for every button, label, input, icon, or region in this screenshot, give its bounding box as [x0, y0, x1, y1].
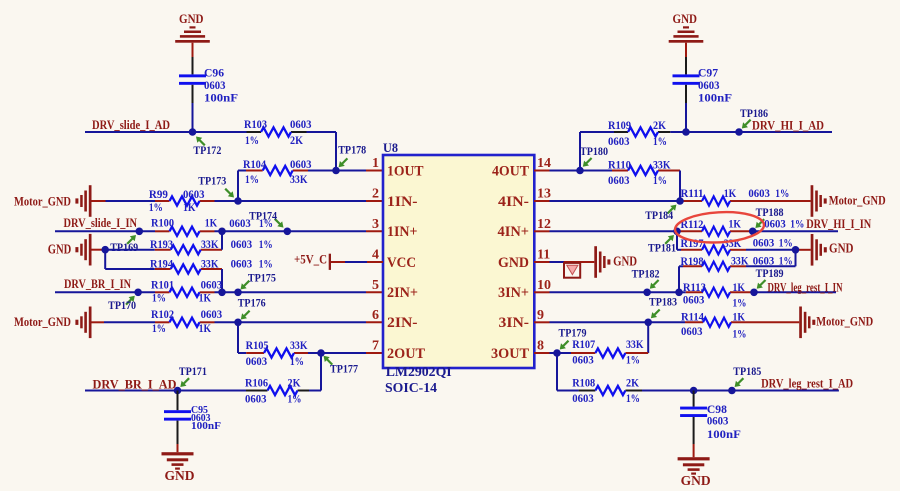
svg-text:10: 10: [537, 278, 551, 293]
svg-text:1%: 1%: [149, 200, 163, 214]
svg-text:1%: 1%: [626, 391, 640, 405]
svg-text:Motor_GND: Motor_GND: [816, 313, 873, 328]
svg-text:0603: 0603: [608, 173, 630, 187]
svg-text:1K: 1K: [733, 280, 746, 294]
svg-text:R109: R109: [608, 118, 631, 132]
svg-text:1%: 1%: [775, 186, 789, 200]
svg-text:0603: 0603: [681, 324, 703, 338]
svg-text:TP174: TP174: [249, 209, 277, 223]
svg-text:DRV_slide_I_IN: DRV_slide_I_IN: [64, 215, 138, 230]
svg-text:DRV_leg_rest_I_IN: DRV_leg_rest_I_IN: [768, 280, 843, 295]
svg-text:100nF: 100nF: [698, 91, 732, 105]
svg-text:1K: 1K: [199, 321, 212, 335]
svg-text:0603: 0603: [290, 157, 312, 171]
svg-text:TP182: TP182: [632, 267, 660, 281]
svg-text:1%: 1%: [152, 291, 166, 305]
svg-text:1%: 1%: [733, 296, 747, 310]
svg-text:0603: 0603: [683, 293, 705, 307]
svg-text:1%: 1%: [653, 173, 667, 187]
svg-text:DRV_BR_I_AD: DRV_BR_I_AD: [93, 377, 177, 392]
svg-text:0603: 0603: [707, 414, 729, 428]
svg-text:0603: 0603: [246, 354, 268, 368]
svg-text:R193: R193: [150, 237, 173, 251]
svg-text:R100: R100: [151, 216, 174, 230]
svg-text:0603: 0603: [753, 235, 775, 249]
svg-text:TP181: TP181: [648, 241, 676, 255]
svg-text:1%: 1%: [626, 353, 640, 367]
svg-text:R110: R110: [608, 158, 631, 172]
svg-text:1IN-: 1IN-: [387, 194, 418, 210]
svg-text:0603: 0603: [572, 391, 594, 405]
svg-text:TP183: TP183: [649, 295, 677, 309]
svg-text:R194: R194: [150, 257, 173, 271]
svg-text:TP176: TP176: [238, 296, 266, 310]
svg-text:Motor_GND: Motor_GND: [14, 194, 71, 209]
svg-text:6: 6: [372, 308, 379, 323]
svg-text:R108: R108: [572, 376, 595, 390]
svg-text:2IN-: 2IN-: [387, 315, 418, 331]
svg-text:2OUT: 2OUT: [387, 346, 425, 362]
svg-text:DRV_slide_I_AD: DRV_slide_I_AD: [92, 117, 170, 132]
svg-text:5: 5: [372, 278, 379, 293]
svg-text:R107: R107: [572, 337, 595, 351]
svg-text:R103: R103: [244, 117, 267, 131]
svg-text:R198: R198: [681, 254, 704, 268]
svg-text:SOIC-14: SOIC-14: [385, 381, 437, 396]
svg-text:Motor_GND: Motor_GND: [829, 192, 886, 207]
svg-text:1K: 1K: [183, 200, 196, 214]
svg-text:R111: R111: [681, 186, 704, 200]
svg-text:R101: R101: [151, 278, 174, 292]
svg-text:3OUT: 3OUT: [491, 346, 529, 362]
svg-text:VCC: VCC: [387, 255, 416, 271]
svg-text:GND: GND: [165, 468, 195, 483]
svg-text:0603: 0603: [201, 278, 223, 292]
svg-text:9: 9: [537, 308, 544, 323]
svg-text:1%: 1%: [288, 392, 302, 406]
svg-text:2K: 2K: [626, 376, 640, 390]
svg-text:0603: 0603: [183, 187, 205, 201]
svg-text:0603: 0603: [290, 117, 312, 131]
svg-text:8: 8: [537, 339, 544, 354]
svg-text:13: 13: [537, 187, 551, 202]
svg-text:2IN+: 2IN+: [387, 285, 418, 301]
svg-text:1%: 1%: [245, 172, 259, 186]
svg-text:33K: 33K: [290, 172, 308, 186]
svg-text:0603: 0603: [748, 186, 770, 200]
svg-text:4IN-: 4IN-: [498, 194, 529, 210]
svg-text:+5V_C: +5V_C: [294, 252, 327, 267]
svg-text:2: 2: [372, 187, 379, 202]
svg-text:Motor_GND: Motor_GND: [14, 314, 71, 329]
svg-text:DRV_HI_I_AD: DRV_HI_I_AD: [752, 118, 824, 133]
svg-text:TP184: TP184: [645, 208, 673, 222]
svg-text:0603: 0603: [231, 237, 253, 251]
svg-text:33K: 33K: [201, 237, 219, 251]
svg-text:GND: GND: [498, 255, 529, 271]
svg-text:4: 4: [372, 248, 379, 263]
svg-text:2K: 2K: [290, 133, 304, 147]
svg-text:GND: GND: [673, 11, 698, 26]
svg-text:4OUT: 4OUT: [492, 163, 529, 179]
svg-text:1IN+: 1IN+: [387, 224, 418, 240]
svg-text:1%: 1%: [733, 327, 747, 341]
svg-text:4IN+: 4IN+: [498, 224, 530, 240]
svg-text:TP189: TP189: [756, 266, 784, 280]
svg-text:1%: 1%: [779, 235, 793, 249]
svg-text:1%: 1%: [152, 321, 166, 335]
svg-text:GND: GND: [829, 241, 854, 256]
svg-text:R114: R114: [681, 310, 704, 324]
svg-text:1%: 1%: [259, 237, 273, 251]
svg-text:2K: 2K: [288, 376, 302, 390]
svg-text:100nF: 100nF: [191, 420, 221, 432]
svg-text:GND: GND: [179, 11, 204, 26]
svg-text:R106: R106: [245, 376, 268, 390]
svg-text:DRV_HI_I_IN: DRV_HI_I_IN: [806, 216, 871, 231]
svg-text:1%: 1%: [259, 257, 273, 271]
svg-text:3IN+: 3IN+: [498, 285, 529, 301]
svg-text:TP185: TP185: [733, 364, 761, 378]
svg-text:12: 12: [537, 217, 551, 232]
svg-text:1K: 1K: [724, 186, 737, 200]
svg-text:TP177: TP177: [330, 362, 358, 376]
svg-text:11: 11: [537, 248, 550, 263]
svg-text:33K: 33K: [653, 158, 671, 172]
svg-text:33K: 33K: [626, 337, 644, 351]
svg-text:TP169: TP169: [110, 240, 138, 254]
svg-text:0603: 0603: [245, 392, 267, 406]
svg-text:0603: 0603: [231, 257, 253, 271]
svg-text:1%: 1%: [290, 354, 304, 368]
svg-text:100nF: 100nF: [707, 427, 741, 441]
svg-text:1OUT: 1OUT: [387, 163, 424, 179]
svg-text:0603: 0603: [764, 217, 786, 231]
svg-text:GND: GND: [48, 241, 72, 256]
svg-text:33K: 33K: [731, 253, 749, 267]
svg-text:3: 3: [372, 217, 379, 232]
svg-text:0603: 0603: [608, 134, 630, 148]
svg-text:TP172: TP172: [193, 143, 221, 157]
svg-text:1K: 1K: [199, 291, 212, 305]
svg-text:1K: 1K: [729, 217, 742, 231]
svg-text:1%: 1%: [653, 134, 667, 148]
svg-text:1: 1: [372, 156, 379, 171]
svg-text:33K: 33K: [201, 257, 219, 271]
svg-text:100nF: 100nF: [204, 91, 238, 105]
svg-text:LM2902QI: LM2902QI: [386, 365, 452, 380]
svg-text:1%: 1%: [790, 217, 804, 231]
svg-text:0603: 0603: [201, 307, 223, 321]
svg-text:14: 14: [537, 156, 551, 171]
svg-text:TP173: TP173: [198, 174, 226, 188]
svg-text:1K: 1K: [205, 216, 218, 230]
svg-text:0603: 0603: [572, 353, 594, 367]
svg-text:1%: 1%: [245, 133, 259, 147]
svg-text:R104: R104: [243, 157, 266, 171]
svg-text:2K: 2K: [653, 118, 667, 132]
svg-text:DRV_leg_rest_I_AD: DRV_leg_rest_I_AD: [761, 376, 853, 391]
svg-text:DRV_BR_I_IN: DRV_BR_I_IN: [64, 276, 131, 291]
svg-text:33K: 33K: [290, 338, 308, 352]
svg-text:TP178: TP178: [338, 143, 366, 157]
svg-text:0603: 0603: [229, 216, 251, 230]
svg-text:TP171: TP171: [179, 364, 207, 378]
svg-text:TP175: TP175: [248, 271, 276, 285]
svg-text:TP180: TP180: [580, 144, 608, 158]
svg-text:R105: R105: [246, 338, 269, 352]
svg-text:3IN-: 3IN-: [499, 315, 530, 331]
svg-text:1K: 1K: [733, 310, 746, 324]
svg-text:GND: GND: [681, 473, 711, 488]
svg-text:U8: U8: [383, 140, 398, 155]
svg-text:TP170: TP170: [108, 298, 136, 312]
svg-text:R102: R102: [151, 307, 174, 321]
svg-text:7: 7: [372, 339, 379, 354]
svg-text:R99: R99: [149, 187, 168, 201]
